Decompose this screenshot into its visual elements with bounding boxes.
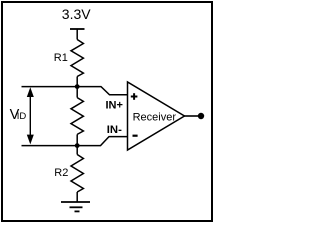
resistor middle (between nodes)	[71, 98, 83, 135]
wire: output	[185, 115, 199, 117]
resistor R1	[71, 40, 83, 77]
resistor R2	[71, 155, 83, 193]
power rail 3.3V bar	[70, 28, 85, 30]
wire: R1 to node A	[76, 77, 78, 87]
plus sign (non-inverting input)	[131, 96, 138, 98]
ground	[61, 201, 90, 203]
node A (top junction)	[75, 84, 80, 89]
node output terminal	[198, 113, 204, 119]
wire: middle resistor to node B	[76, 134, 78, 145]
node B (bottom junction)	[75, 143, 80, 148]
border frame	[2, 2, 212, 221]
wire: node A to middle resistor	[76, 87, 78, 98]
wire: R2 to ground	[76, 192, 78, 202]
wire: node A to IN+	[77, 87, 127, 95]
wire: node B to IN-	[77, 137, 127, 146]
svg-text:3.3V: 3.3V	[62, 6, 91, 22]
svg-text:ID: ID	[17, 111, 27, 122]
svg-text:IN-: IN-	[107, 124, 122, 136]
op-amp U1 receiver triangle	[128, 82, 185, 150]
minus sign (inverting input)	[133, 135, 138, 137]
svg-text:R1: R1	[54, 52, 68, 64]
svg-text:IN+: IN+	[106, 100, 123, 112]
svg-text:R2: R2	[54, 167, 68, 179]
wire: top-left horizontal	[22, 86, 78, 88]
wire: bottom-left horizontal	[22, 145, 78, 147]
VID measurement arrow (double headed)	[29, 96, 31, 137]
wire: rail to R1	[76, 29, 78, 40]
wire: node B to R2	[76, 146, 78, 155]
svg-text:Receiver: Receiver	[133, 112, 177, 124]
